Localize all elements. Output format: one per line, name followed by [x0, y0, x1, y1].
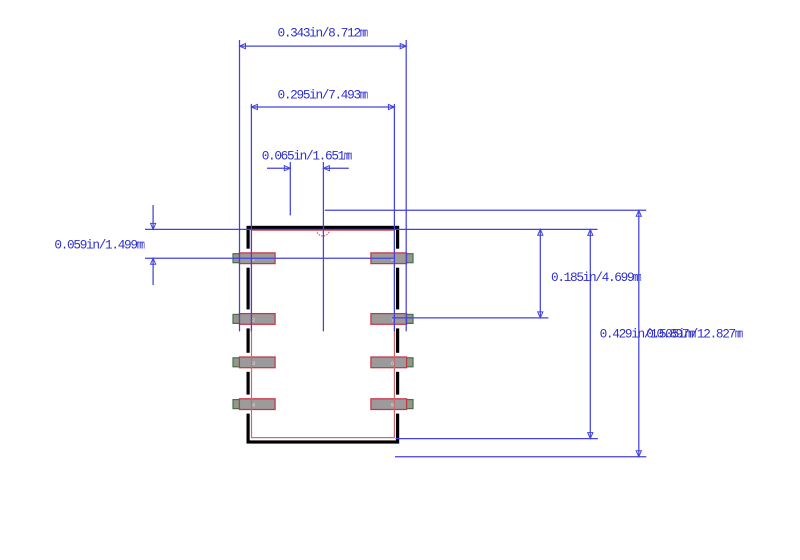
lead pin 8	[372, 254, 413, 263]
svg-text:0.059in/1.499: 0.059in/1.499	[54, 238, 137, 253]
extension line left of 0.065 dim	[289, 162, 291, 215]
lead pin 2	[233, 314, 274, 323]
svg-text:mm: mm	[344, 149, 352, 164]
pad pin 4	[239, 399, 275, 410]
extension line left of 0.343 dim	[239, 40, 241, 331]
lead pin 6	[372, 358, 413, 367]
dimension text 0.343in/8.712mm	[278, 26, 369, 41]
dimension text 0.065in/1.651mm	[262, 149, 353, 164]
dimension line 0.505in	[638, 210, 640, 456]
gap in body edge at pin 8	[394, 249, 401, 268]
gap in body edge at pin 4	[245, 395, 252, 414]
gap in body edge at pin 2	[245, 309, 252, 328]
extension line top through body	[145, 228, 598, 230]
dimension arrow left 0.065in	[267, 167, 290, 169]
pad pin 1	[239, 253, 275, 264]
dimension line 0.343in	[240, 45, 407, 47]
extension line left of 0.295 dim	[250, 104, 252, 332]
dimension text 0.295in/7.493mm	[278, 88, 369, 103]
dimension line 0.429in	[589, 229, 591, 438]
extension line bottom for 0.429 dim	[396, 438, 598, 440]
lead pin 4	[233, 400, 274, 409]
svg-text:mm: mm	[735, 326, 743, 341]
svg-text:0.065in/1.651: 0.065in/1.651	[262, 149, 346, 164]
extension line right of 0.295 dim	[393, 104, 395, 332]
package body outline U1	[248, 227, 398, 442]
gap in body edge at pin 5	[394, 395, 401, 414]
dimension line 0.185in	[539, 229, 541, 318]
pad pin 5	[371, 399, 407, 410]
pad pin 7	[371, 314, 407, 325]
pad pin 6	[371, 357, 407, 368]
dimension arrow right 0.065in	[323, 167, 348, 169]
dimension line 0.295in	[251, 106, 394, 108]
lead pin 5	[372, 400, 413, 409]
gap in body edge at pin 7	[394, 309, 401, 328]
svg-text:6: 6	[391, 360, 394, 367]
gap in body edge at pin 1	[245, 249, 252, 268]
svg-text:mm: mm	[137, 238, 145, 253]
gap in body edge at pin 6	[394, 353, 401, 372]
lead pin 3	[233, 358, 274, 367]
dimension arrow upper 0.059in	[152, 205, 154, 229]
silkscreen body rectangle	[252, 230, 395, 437]
svg-text:0.185in/4.699: 0.185in/4.699	[551, 270, 634, 285]
lead pin 7	[372, 314, 413, 323]
svg-text:5: 5	[391, 402, 394, 409]
dimension text 0.505in/12.827mm	[646, 326, 743, 341]
pin 1 notch indicator	[317, 230, 330, 236]
dimension text 0.059in/1.499mm	[54, 238, 145, 253]
pad pin 2	[239, 314, 275, 325]
lead pin 1	[233, 254, 274, 263]
dimension text 0.185in/4.699mm	[551, 270, 642, 285]
dimension text 0.429in/10.897mm	[600, 326, 697, 341]
svg-text:2: 2	[252, 317, 255, 324]
extension line top for 0.505 dim	[325, 209, 647, 211]
svg-text:3: 3	[252, 360, 255, 367]
svg-text:mm: mm	[633, 270, 641, 285]
svg-text:8: 8	[391, 256, 394, 263]
svg-text:0.343in/8.712: 0.343in/8.712	[278, 26, 361, 41]
extension line right of 0.343 dim	[405, 40, 407, 331]
svg-text:0.505in/12.827: 0.505in/12.827	[646, 326, 735, 341]
gap in body edge at pin 3	[245, 353, 252, 372]
extension line pin1 row	[145, 257, 395, 259]
extension line bottom for 0.505 dim	[395, 456, 646, 458]
pad pin 3	[239, 357, 275, 368]
svg-text:mm: mm	[360, 88, 368, 103]
extension line pin2 row	[392, 317, 548, 319]
dimension arrow lower 0.059in	[152, 258, 154, 285]
svg-text:mm: mm	[360, 26, 368, 41]
pad pin 8	[371, 253, 407, 264]
svg-text:0.295in/7.493: 0.295in/7.493	[278, 88, 361, 103]
center line of package	[322, 162, 324, 331]
